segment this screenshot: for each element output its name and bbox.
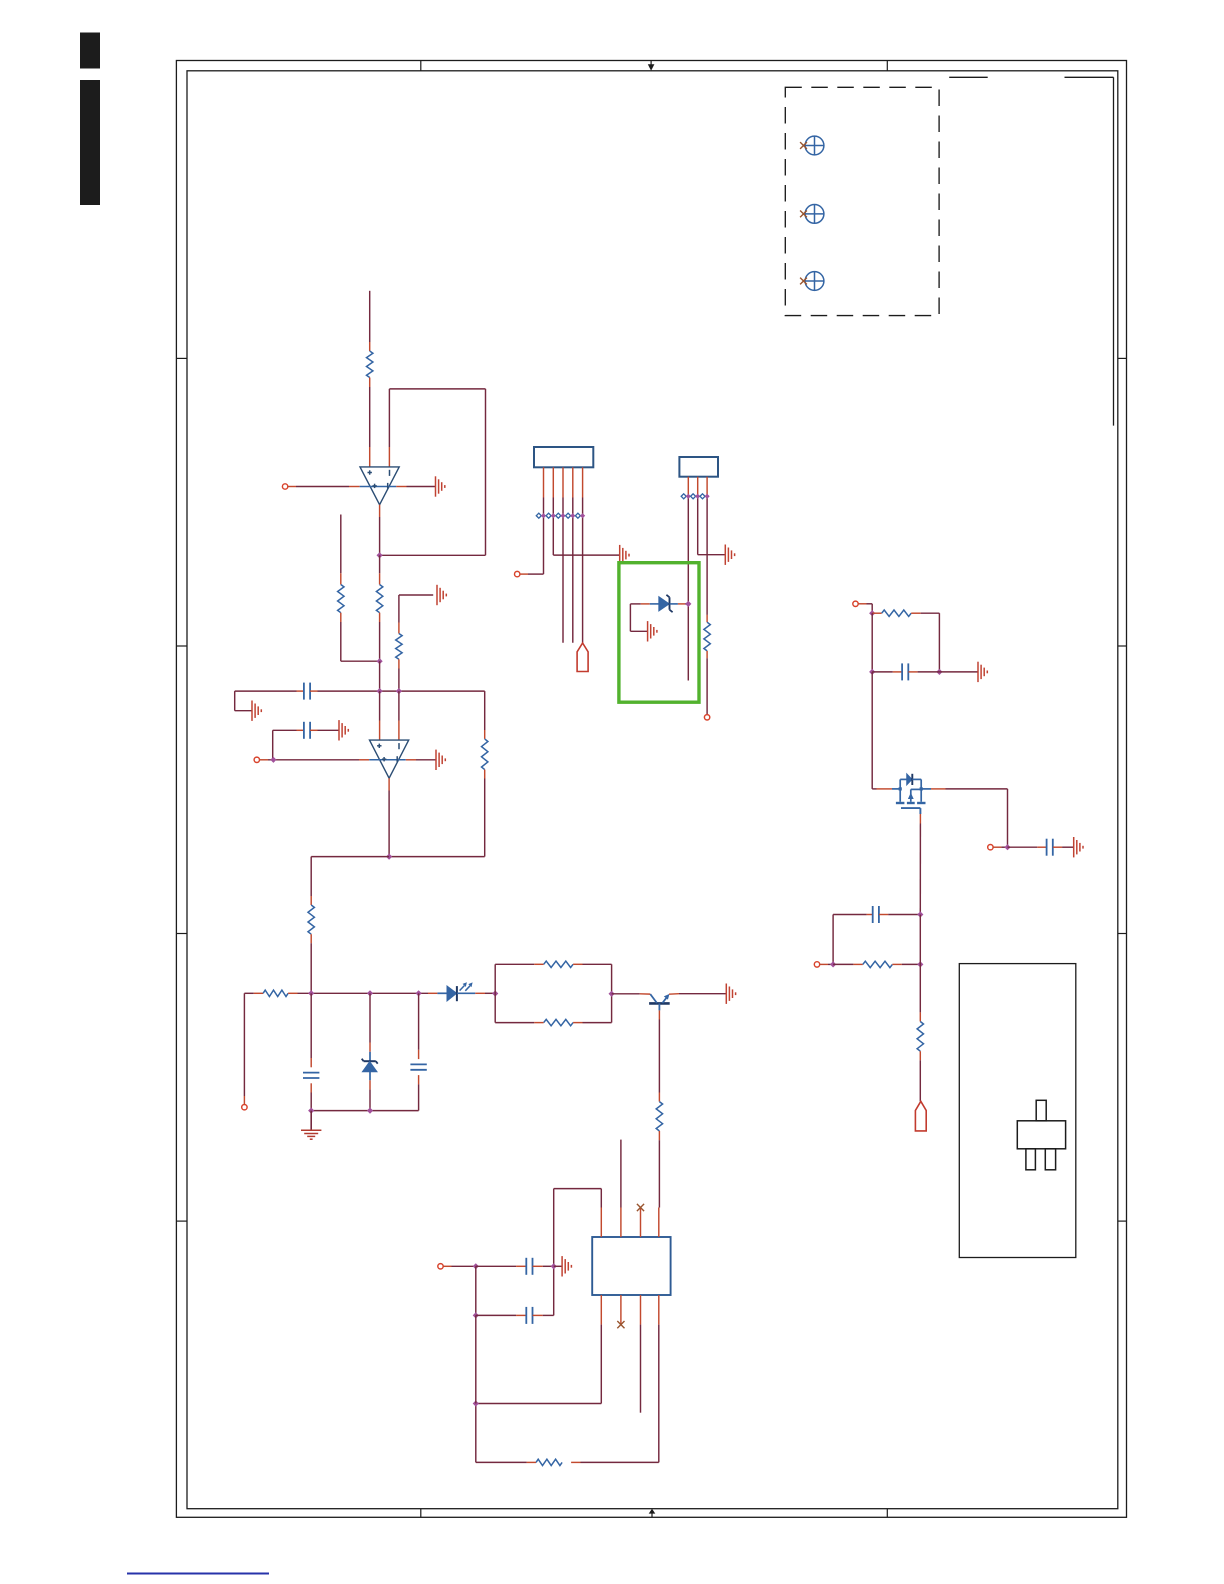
mounting hole MH1 (805, 136, 824, 155)
capacitor C2 (297, 729, 304, 731)
node E junction (367, 990, 373, 996)
footer hyperlink underline (127, 1573, 269, 1575)
capacitor C8 (476, 1265, 516, 1267)
pin U3-7 bottom (640, 1295, 642, 1325)
wire node E down to D3 (369, 993, 371, 1042)
node U junction (551, 1263, 557, 1269)
wire node K down to C5 row (871, 613, 873, 672)
pin CN2-1 (687, 477, 689, 497)
resistor R12 (872, 612, 882, 614)
wire CN1-4 stub (572, 498, 574, 643)
capacitor C9 (476, 1314, 516, 1316)
highlight green box (619, 563, 699, 703)
pin U1 output bottom (379, 505, 381, 517)
terminal input U2 (254, 757, 259, 762)
IC U3 (592, 1237, 670, 1295)
package tab (1036, 1100, 1046, 1121)
wire R5 to out rail (484, 779, 486, 857)
mosfet Q2 (892, 788, 900, 790)
connector CN1 (534, 447, 593, 467)
wire LED to parallel block (485, 992, 495, 994)
wire D3 to bottom rail (369, 1090, 371, 1111)
package body TO-252 (1017, 1121, 1065, 1149)
wire node A to node B (379, 661, 381, 691)
border outer frame (176, 61, 1126, 1518)
pin CN1-1 (543, 467, 545, 497)
mechanical outline dashed box (785, 87, 939, 315)
ground C1 left (251, 701, 253, 721)
wire U1 out down to R2 (379, 555, 381, 573)
wire gate column to R14 (919, 915, 921, 1013)
net markers CN1 (539, 515, 544, 517)
node Q junction (917, 961, 923, 967)
package leg 1 (1026, 1149, 1036, 1170)
wire R2 to node A (379, 622, 381, 661)
capacitor C3 (310, 1058, 312, 1067)
node B junction (377, 688, 383, 694)
op-amp U1 (360, 467, 399, 505)
wire node T down (475, 1266, 477, 1315)
wire C4 to bottom rail (418, 1084, 420, 1110)
wire CN1-3 stub (562, 498, 564, 643)
capacitor C5 (872, 671, 893, 673)
wire R4 top to ground (398, 623, 400, 634)
wire terminal up to R7 (243, 1096, 245, 1104)
wire node F down to C4 (418, 993, 420, 1050)
wire AC rail (235, 690, 297, 692)
wire bottom rail (311, 1110, 418, 1112)
wire C2 left to input node (273, 729, 297, 731)
wire parallel block top (494, 964, 496, 993)
wire R6 to LED rail (310, 943, 312, 993)
wire stub left column (340, 515, 342, 574)
ground CN1-2 (619, 545, 621, 565)
wire Q1 emitter to ground (669, 993, 679, 996)
node F junction (416, 990, 422, 996)
ground C5 right (977, 662, 979, 682)
node N junction (1004, 844, 1010, 850)
node D1 junction (685, 601, 691, 607)
node C junction (396, 688, 402, 694)
resistor R15 (571, 1461, 580, 1463)
wire U3-5 to node S (600, 1325, 602, 1404)
diode D1 (641, 603, 650, 605)
wire feedback loop U1 (380, 554, 486, 556)
terminal CN2-3 (704, 715, 709, 720)
op-amp U2 (370, 740, 409, 778)
wire R12 to node L (921, 612, 940, 614)
terminal bottom left IC rail (438, 1264, 443, 1269)
wire terminal to U2 + input (260, 759, 268, 761)
capacitor C1 (297, 690, 304, 692)
pin U2 right (406, 759, 416, 761)
pin CN1-4 (572, 467, 574, 497)
node S junction (473, 1400, 479, 1406)
capacitor C7 (1008, 846, 1038, 848)
border centering arrow bottom (651, 1512, 653, 1517)
ground earth bottom left (310, 1111, 312, 1131)
resistor R2 (379, 573, 381, 584)
wire C5 row to ground (939, 671, 978, 673)
connector CN2 (679, 457, 718, 477)
capacitor C4 (418, 1050, 420, 1059)
wire R7 to LED rail (298, 992, 429, 994)
border inner frame (187, 71, 1118, 1509)
pin U3-3 top no-connect (640, 1208, 642, 1238)
net markers CN2 (684, 495, 689, 497)
wire R10 to IC pin (658, 1140, 660, 1207)
node H junction (609, 991, 615, 997)
wire CN1-5 to flag (582, 498, 584, 644)
print registration bar 2 (80, 80, 100, 205)
node P junction (830, 961, 836, 967)
transistor Q1 (649, 1002, 670, 1005)
wire U3-7 stub down (640, 1325, 642, 1413)
resistor R11 (706, 615, 708, 622)
resistor R1 (369, 342, 371, 351)
terminal input U1 (282, 484, 287, 489)
resistor R7 (254, 992, 263, 994)
wire CN2-1 down through green box (687, 496, 689, 680)
ground C2 right (338, 720, 340, 740)
ground IC rail (561, 1256, 563, 1276)
package leg 2 (1045, 1149, 1055, 1170)
wire node B rail to R5 (484, 691, 486, 730)
wire parallel block bottom (494, 994, 496, 1023)
node I junction (308, 1108, 314, 1114)
pin U3-5 bottom (600, 1295, 602, 1325)
node J junction (367, 1108, 373, 1114)
wire terminal to node K (858, 603, 866, 605)
node L junction (936, 669, 942, 675)
wire U3-8 down to R15 (658, 1325, 660, 1463)
border zone ticks bottom (420, 1509, 422, 1518)
ground CN2-2 (724, 545, 726, 565)
power flag F1 (577, 643, 588, 672)
wire CN2-2 to ground (697, 496, 699, 554)
wire D1 cathode to CN2-1 (685, 603, 688, 605)
wire node H to Q1 (612, 993, 640, 995)
node D junction (308, 990, 314, 996)
pin CN2-3 (706, 477, 708, 497)
wire C6 left down (832, 915, 834, 965)
wire C3 to bottom rail (310, 1093, 312, 1111)
wire node M down to Q2 (871, 672, 873, 789)
print registration bar 1 (80, 33, 100, 69)
pin U1 inverting top (388, 447, 390, 467)
resistor R4 (396, 634, 402, 660)
wire terminal to C7 (993, 846, 1001, 848)
power flag F2 (915, 1101, 926, 1131)
wire terminal to node P (820, 963, 828, 965)
wire C1 to node B (318, 690, 485, 692)
wire node D down to C3 (310, 993, 312, 1058)
wire input top to R1 (369, 291, 371, 342)
resistor R13 (833, 963, 853, 965)
wire terminal to U1 + input (288, 486, 296, 488)
wire CN2-3 to R11 (706, 496, 708, 615)
title block partial lines top right (949, 76, 988, 78)
pin U2 inverting top (398, 691, 400, 720)
border zone ticks left (176, 357, 187, 359)
pin U2 output (388, 778, 390, 790)
node M junction (869, 669, 875, 675)
wire D1 anode loop (630, 603, 640, 605)
LED D2 arrows (460, 986, 465, 991)
pin U3-2 top (620, 1208, 622, 1238)
pin U3-6 bottom no-connect (620, 1295, 622, 1325)
node U2 out junction (386, 854, 392, 860)
wire R3 bottom to node A (340, 622, 342, 661)
capacitor C6 (833, 914, 867, 916)
node V junction (473, 1312, 479, 1318)
pin CN1-3 (562, 467, 564, 497)
wire Q2 drain right (931, 788, 946, 790)
node O junction (917, 911, 923, 917)
wire node U to ground (554, 1265, 562, 1267)
terminal bottom left (242, 1105, 247, 1110)
node input U2 junction (270, 757, 276, 763)
wire C2 right to ground (318, 729, 340, 731)
resistor R6 (310, 896, 312, 905)
border zone ticks top (420, 61, 422, 71)
wire Q1 collector down (658, 1010, 660, 1019)
wire R8 to right node (583, 963, 612, 965)
wire R9 to right node (583, 1022, 612, 1024)
node K junction (869, 610, 875, 616)
ground C7 right (1073, 837, 1075, 857)
resistor R14 (919, 1012, 921, 1021)
pin CN2-2 (697, 477, 699, 497)
node T junction (473, 1263, 479, 1269)
pin U3-1 top (600, 1208, 602, 1238)
wire CN1-1 to terminal (543, 498, 545, 575)
node A junction (377, 658, 383, 664)
resistor R5 (484, 730, 486, 739)
wire R14 to flag (919, 1060, 921, 1101)
resistor R3 (340, 573, 342, 584)
border centering arrow top (650, 61, 652, 66)
ground U1 right (435, 476, 437, 496)
wire U3-1 to left column (600, 1189, 602, 1208)
wire R1 to op-amp U1 V+ (369, 387, 371, 447)
zener diode D3 (369, 1043, 371, 1052)
pin U1 output right (396, 486, 406, 488)
ground D1 anode (647, 621, 649, 641)
terminal CN1-1 (515, 571, 520, 576)
terminal right top (853, 601, 858, 606)
wire R15 to left rail (476, 1461, 527, 1463)
wire node V down to node S (475, 1315, 477, 1403)
ground U2 right (435, 750, 437, 770)
resistor R8 (534, 963, 543, 965)
wire U3-2 stub up (620, 1140, 622, 1208)
wire Q2 gate down (919, 814, 921, 824)
assembly outline box (959, 964, 1076, 1258)
mounting hole MH2 (805, 205, 824, 224)
node U1 out junction (377, 552, 383, 558)
border zone ticks right (1118, 357, 1127, 359)
ground Q1 emitter (725, 984, 727, 1004)
wire CN1-2 to ground (552, 498, 554, 556)
wire terminal to node T (443, 1265, 451, 1267)
pin U3-4 top (658, 1208, 660, 1238)
ground above R4 (436, 585, 438, 605)
wire out rail left down (311, 856, 389, 858)
terminal R13 left (814, 962, 819, 967)
mounting hole MH3 (805, 272, 824, 291)
wire C1 left to ground (234, 691, 236, 711)
wire R11 to terminal (706, 658, 708, 714)
terminal C7 left (988, 845, 993, 850)
resistor R10 (658, 1093, 660, 1102)
node G junction (492, 990, 498, 996)
pin U3-8 bottom (658, 1295, 660, 1325)
LED D2 (428, 992, 437, 994)
pin U2 V+ top (379, 691, 381, 720)
pin CN1-2 (552, 467, 554, 497)
wire R4 to node C (398, 669, 400, 692)
pin CN1-5 (582, 467, 584, 497)
resistor R9 (534, 1022, 543, 1024)
